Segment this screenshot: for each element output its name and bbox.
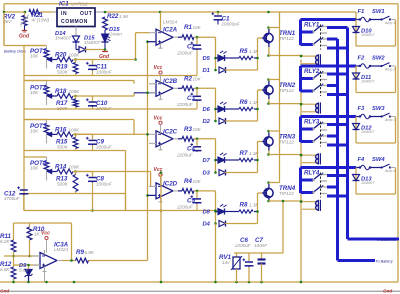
svg-text:UA7812: UA7812 (71, 1, 88, 6)
svg-text:IC2D: IC2D (163, 180, 178, 187)
svg-text:1N4007: 1N4007 (361, 80, 375, 84)
svg-text:IC2A: IC2A (163, 27, 178, 34)
svg-text:R14: R14 (55, 164, 67, 171)
svg-text:Amp 2: Amp 2 (384, 68, 395, 72)
svg-text:R6: R6 (240, 99, 248, 106)
svg-text:OUT: OUT (80, 11, 92, 17)
svg-text:2200uF: 2200uF (176, 51, 194, 56)
svg-text:8.2K: 8.2K (0, 239, 10, 244)
svg-text:100K: 100K (69, 53, 81, 58)
svg-text:R7: R7 (240, 150, 248, 157)
svg-text:10K: 10K (193, 25, 202, 30)
svg-text:F4: F4 (358, 157, 366, 163)
svg-text:R2: R2 (184, 75, 192, 82)
svg-text:F2: F2 (358, 56, 366, 62)
svg-text:SW2: SW2 (372, 56, 385, 62)
svg-text:500K: 500K (57, 144, 69, 149)
svg-text:IN: IN (61, 11, 67, 17)
svg-text:D2: D2 (203, 119, 211, 125)
svg-text:10K: 10K (193, 127, 202, 132)
svg-text:10K: 10K (30, 128, 39, 133)
svg-text:10K: 10K (30, 166, 39, 171)
svg-text:100K: 100K (69, 127, 81, 132)
svg-text:1000uF: 1000uF (96, 182, 113, 187)
svg-text:RLY4: RLY4 (304, 170, 320, 177)
svg-text:1N4007: 1N4007 (55, 36, 72, 41)
svg-text:R4: R4 (184, 178, 192, 185)
svg-text:SW3: SW3 (372, 106, 385, 112)
svg-text:Vcc: Vcc (154, 115, 163, 121)
svg-text:TIP122: TIP122 (279, 88, 294, 93)
svg-text:C3: C3 (187, 95, 195, 102)
svg-text:10K: 10K (30, 90, 39, 95)
svg-text:4/ (10W): 4/ (10W) (32, 18, 50, 23)
svg-text:5.6V: 5.6V (19, 268, 29, 273)
svg-text:1N4007: 1N4007 (361, 130, 375, 134)
svg-text:500K: 500K (57, 70, 69, 75)
svg-text:1.5K: 1.5K (119, 14, 129, 19)
svg-text:1N4007: 1N4007 (361, 33, 375, 37)
svg-text:D3: D3 (203, 171, 211, 177)
svg-text:C4: C4 (187, 145, 195, 152)
svg-text:R1: R1 (184, 24, 192, 31)
svg-text:SW1: SW1 (372, 9, 385, 15)
svg-text:R20: R20 (55, 52, 67, 59)
svg-text:R16: R16 (55, 126, 67, 133)
svg-text:TIP122: TIP122 (279, 140, 294, 145)
svg-text:C2: C2 (187, 44, 195, 51)
svg-text:To Batteries: To Batteries (376, 238, 396, 242)
svg-text:F1: F1 (358, 9, 365, 15)
svg-text:Vcc: Vcc (41, 231, 50, 237)
svg-text:Amp 1: Amp 1 (384, 21, 395, 25)
svg-text:D7: D7 (203, 158, 211, 164)
svg-text:10K: 10K (193, 179, 202, 184)
svg-text:10K: 10K (30, 54, 39, 59)
svg-text:Battery Drive: Battery Drive (4, 50, 26, 54)
svg-text:IC1: IC1 (59, 0, 69, 7)
svg-text:TIP122: TIP122 (279, 36, 294, 41)
svg-text:Amp 3: Amp 3 (384, 118, 395, 122)
svg-text:1000uF: 1000uF (96, 144, 113, 149)
svg-text:1N4007: 1N4007 (361, 181, 375, 185)
svg-text:R5: R5 (240, 48, 248, 55)
svg-text:Amp 4: Amp 4 (384, 169, 395, 173)
svg-text:1K: 1K (34, 232, 41, 237)
svg-text:500K: 500K (57, 182, 69, 187)
svg-text:1N4007: 1N4007 (84, 40, 101, 45)
svg-text:F3: F3 (358, 106, 366, 112)
svg-text:COMMON: COMMON (61, 19, 88, 25)
svg-text:R9: R9 (76, 249, 84, 256)
svg-text:D4: D4 (203, 222, 211, 228)
svg-text:Vcc: Vcc (154, 65, 163, 71)
svg-text:1000uF: 1000uF (96, 70, 113, 75)
svg-text:RLY1: RLY1 (304, 22, 320, 29)
svg-text:LM324: LM324 (163, 20, 177, 25)
svg-text:D8: D8 (203, 210, 211, 216)
svg-text:To Battery: To Battery (376, 259, 394, 263)
svg-text:6.8K: 6.8K (85, 250, 95, 255)
svg-text:2200uF: 2200uF (176, 152, 194, 157)
svg-text:RLY3: RLY3 (304, 119, 320, 126)
svg-text:Gnd: Gnd (383, 289, 392, 294)
svg-text:RLY2: RLY2 (304, 68, 320, 75)
svg-text:10K: 10K (193, 76, 202, 81)
svg-text:D1: D1 (203, 68, 210, 74)
svg-text:6.8K: 6.8K (0, 267, 10, 272)
svg-text:100K: 100K (69, 89, 81, 94)
svg-text:4700uF: 4700uF (4, 196, 21, 201)
svg-text:2200uF: 2200uF (176, 102, 194, 107)
svg-text:Gnd: Gnd (0, 289, 9, 294)
svg-text:R18: R18 (55, 88, 67, 95)
svg-text:IC2B: IC2B (163, 78, 178, 85)
svg-text:2200uF: 2200uF (176, 204, 194, 209)
svg-text:TIP122: TIP122 (279, 191, 294, 196)
svg-text:IC2C: IC2C (163, 128, 178, 135)
svg-text:10000uF: 10000uF (222, 22, 241, 27)
svg-text:100K: 100K (69, 165, 81, 170)
svg-text:Gnd: Gnd (19, 34, 30, 40)
svg-text:D6: D6 (203, 107, 211, 113)
svg-text:SW4: SW4 (372, 157, 385, 163)
svg-text:2200uF: 2200uF (234, 243, 252, 248)
svg-text:100nF: 100nF (254, 243, 268, 248)
svg-text:C5: C5 (187, 197, 195, 204)
svg-text:14v: 14v (222, 260, 230, 265)
svg-text:R22: R22 (107, 13, 119, 20)
svg-text:R8: R8 (240, 202, 248, 209)
svg-text:LM324: LM324 (54, 247, 68, 252)
svg-text:D5: D5 (203, 56, 211, 62)
svg-text:Green: Green (109, 32, 122, 37)
svg-text:R3: R3 (184, 126, 192, 133)
